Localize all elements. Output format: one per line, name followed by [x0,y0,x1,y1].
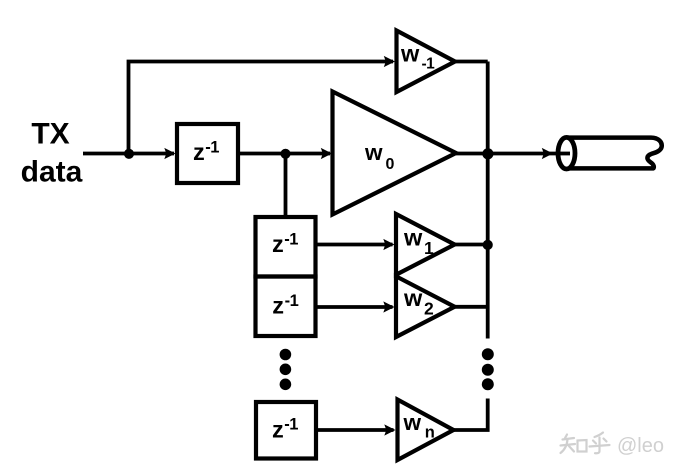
svg-text:@leo: @leo [617,435,664,457]
amplifier wn [398,400,454,461]
svg-text:data: data [21,155,83,188]
svg-text:n: n [425,423,435,441]
amplifier w1 [396,214,455,275]
wire node B to w0 [286,148,333,159]
svg-text:z: z [272,231,284,257]
svg-text:-1: -1 [284,231,298,249]
node TX data label [21,117,83,188]
node ellipsis left [280,349,292,390]
delay block Z2 z^-1 [256,217,316,277]
wire wn output to bus [454,399,488,431]
svg-text:w: w [403,410,422,435]
wire w0 output [456,152,488,156]
amplifier w0 [333,92,457,215]
watermark zhihu leo [561,433,610,454]
wire Z4 to wn [318,424,396,435]
amplifier w-1 [397,31,456,93]
node ellipsis right [482,348,494,390]
wire main input [83,148,176,159]
svg-text:0: 0 [386,156,395,173]
wire Z1 to node B [240,152,286,156]
svg-text:-1: -1 [422,56,436,73]
wire w2 output to bus [455,305,488,309]
wire output to channel [488,148,566,159]
amplifier w2 [396,276,455,337]
wire w1 output to bus [455,243,488,247]
svg-text:w: w [403,224,423,250]
svg-text:w: w [400,40,420,66]
delay block Z3 z^-1 [256,277,316,337]
svg-text:-1: -1 [285,292,299,310]
wire Z3 to w2 [318,301,395,312]
delay block Z4 z^-1 [256,402,316,459]
svg-text:1: 1 [424,238,434,258]
junction node A [124,149,134,159]
wire branch to w-1 [129,56,396,154]
wire Z2 to w1 [318,239,395,250]
channel cable symbol [557,137,662,169]
wire bus vertical upper segment [486,62,490,339]
svg-text:z: z [272,293,284,319]
junction node w1-bus [483,240,493,250]
svg-text:TX: TX [31,117,69,150]
wire node B down to Z2 [284,154,288,219]
svg-text:-1: -1 [284,415,298,433]
svg-text:w: w [364,140,383,165]
delay block Z1 z^-1 [177,124,238,183]
svg-text:z: z [272,417,284,443]
junction node B [280,149,290,159]
svg-text:2: 2 [424,299,434,319]
svg-text:z: z [193,139,205,165]
svg-text:w: w [403,285,423,311]
svg-text:-1: -1 [205,138,219,156]
wire w-1 output to bus [455,60,488,64]
junction node OUT [482,148,493,159]
